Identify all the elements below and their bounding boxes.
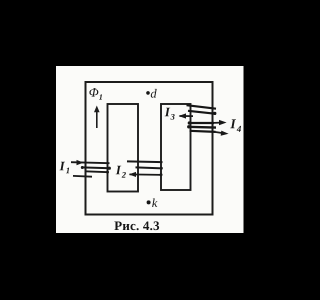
- scanned paper background: [56, 66, 244, 233]
- node d dot: [146, 91, 150, 95]
- current label I3: [165, 108, 175, 120]
- winding W3-W4 on right limb: [187, 105, 217, 132]
- winding W3 terminal arrow (I3, pointing left): [179, 113, 193, 118]
- node k dot: [147, 200, 151, 204]
- flux arrow (up): [94, 106, 100, 129]
- flux label Phi1: [89, 88, 102, 100]
- core outer boundary (magnetic core frame): [86, 82, 213, 215]
- winding W4 terminal arrow lower (pointing right): [215, 131, 229, 136]
- node k label: [152, 198, 157, 207]
- current label I4: [230, 119, 241, 131]
- current label I2: [116, 166, 126, 178]
- winding W4 terminal arrow upper (I4, pointing right): [214, 120, 227, 125]
- node d label: [151, 89, 157, 98]
- left core window: [108, 104, 139, 192]
- caption Рис. 4.3: [114, 221, 159, 230]
- winding W1 on left limb: [71, 160, 111, 177]
- right core window: [161, 104, 191, 190]
- current label I1: [59, 162, 69, 173]
- winding W2 on middle limb: [127, 161, 163, 177]
